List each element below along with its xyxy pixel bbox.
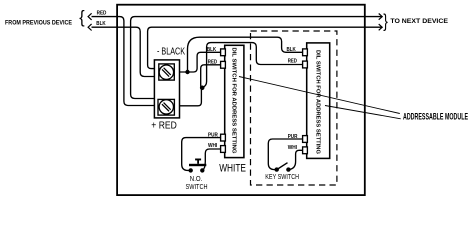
svg-text:WHI: WHI: [208, 143, 218, 149]
wire A: BLACK junction over DIL1 to DIL2 BLK pin: [188, 37, 303, 72]
wire PUR1 to N.O. switch left contact: [182, 138, 221, 171]
wire B: RED junction over DIL1 to DIL2 RED pin: [202, 43, 303, 88]
leader line to DIL2: [325, 106, 401, 119]
wire WHI2 to key switch right contact: [290, 150, 303, 169]
svg-text:RED: RED: [208, 59, 218, 65]
key switch blade: [277, 163, 288, 170]
wire RED junction to DIL1 RED pin: [201, 65, 221, 88]
DIL2 pin BLK tab: [303, 49, 308, 56]
wire BLK out: from - BLACK terminal up and right to next device: [148, 27, 382, 68]
svg-text:BLK: BLK: [96, 21, 106, 27]
svg-text:+ RED: + RED: [151, 120, 177, 131]
svg-text:}: }: [383, 10, 388, 31]
DIL1 pin WHI tab: [221, 146, 226, 153]
wire RED out: from + RED terminal up and right to next device: [131, 17, 382, 99]
terminal screw upper (BLACK): [159, 65, 173, 79]
svg-text:BLK: BLK: [287, 47, 297, 53]
arrow from-previous BLK: [88, 24, 92, 31]
terminal block TB1: [154, 60, 179, 118]
DIL1 pin BLK tab: [221, 49, 226, 56]
svg-text:WHITE: WHITE: [219, 162, 246, 174]
wire WHI1 to N.O. switch right contact: [203, 149, 221, 170]
dashed box (alternative module): [251, 31, 337, 185]
N.O. switch contact left: [189, 168, 193, 172]
node junction on RED wire: [200, 86, 205, 91]
DIL2 pin WHI tab: [303, 147, 308, 154]
arrow to-next RED: [379, 14, 383, 20]
svg-text:TO NEXT DEVICE: TO NEXT DEVICE: [390, 18, 448, 25]
svg-text:ADDRESSABLE MODULE: ADDRESSABLE MODULE: [403, 111, 468, 122]
leader line to DIL1: [239, 77, 400, 114]
N.O. switch bar: [189, 164, 206, 166]
N.O. switch stem: [197, 160, 199, 164]
svg-text:KEY SWITCH: KEY SWITCH: [265, 174, 299, 181]
terminal screw pad lower: [158, 99, 174, 115]
svg-text:FROM PREVIOUS DEVICE: FROM PREVIOUS DEVICE: [5, 20, 73, 27]
arrow to-next BLK: [379, 24, 383, 30]
terminal screw pad upper: [159, 64, 175, 80]
svg-text:RED: RED: [288, 58, 298, 64]
svg-text:{: {: [79, 7, 85, 27]
svg-text:RED: RED: [97, 11, 107, 17]
DIL2 pin RED tab: [303, 61, 308, 68]
key switch contact left: [275, 167, 279, 171]
wire BLACK terminal to DIL1 BLK pin: [180, 52, 221, 72]
DIL switch 2 box: [307, 43, 330, 158]
DIL switch 1 box: [225, 45, 244, 157]
svg-text:WHI: WHI: [288, 145, 298, 151]
DIL2 pin PUR tab: [303, 136, 308, 143]
terminal screw lower (RED): [159, 100, 173, 114]
DIL1 pin RED tab: [221, 61, 226, 68]
svg-text:- BLACK: - BLACK: [157, 47, 185, 58]
addressable module outer box: [117, 5, 365, 195]
svg-text:DIL SWITCH FOR ADDRESS SETTING: DIL SWITCH FOR ADDRESS SETTING: [315, 50, 321, 154]
N.O. switch cap: [195, 159, 201, 161]
svg-text:N.O.: N.O.: [190, 176, 203, 183]
key switch contact right: [286, 167, 290, 171]
wire RED in: from previous device down to + RED terminal: [92, 17, 155, 106]
N.O. switch contact right: [200, 168, 204, 172]
wire RED terminal up to junction: [180, 88, 202, 106]
wire BLK in: from previous device down to - BLACK terminal: [92, 27, 155, 76]
DIL1 pin PUR tab: [221, 134, 226, 141]
arrow from-previous RED: [88, 13, 92, 20]
svg-text:DIL SWITCH FOR ADDRESS SETTING: DIL SWITCH FOR ADDRESS SETTING: [230, 48, 236, 154]
svg-text:SWITCH: SWITCH: [186, 184, 208, 191]
svg-text:BLK: BLK: [207, 47, 217, 53]
node junction on BLACK wire: [185, 70, 189, 74]
wire PUR2 to key switch left contact: [268, 139, 302, 170]
